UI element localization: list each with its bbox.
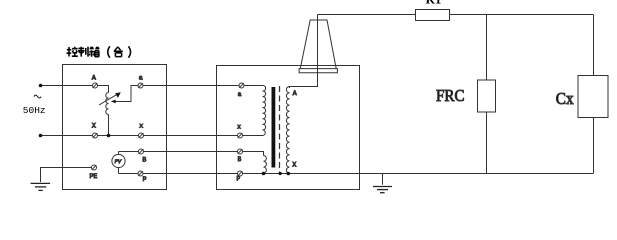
transformer core solid bar — [272, 87, 276, 168]
AC tilde symbol — [34, 95, 41, 98]
junction dot core dashed bar at bus — [279, 172, 282, 175]
wire P-line / bottom bus to Cx — [119, 173, 594, 175]
glyph 制 — [78, 47, 88, 57]
svg-text:P: P — [143, 176, 147, 183]
wire PE lead to ground — [41, 168, 95, 183]
terminal B (control box) — [139, 149, 144, 154]
primary winding a-x (inside tank) — [263, 85, 266, 135]
wire voltmeter top stub — [118, 152, 120, 155]
wire voltmeter bottom stub — [118, 168, 120, 174]
terminal X (control box) — [93, 133, 98, 138]
junction dot supply A — [39, 84, 43, 88]
glyph （ — [108, 46, 110, 57]
svg-text:R1: R1 — [426, 0, 442, 6]
svg-text:PV: PV — [115, 159, 122, 165]
ground symbol at PE — [31, 183, 50, 190]
wire bushing conductor down to HV winding top — [290, 15, 318, 89]
terminal x (tank) — [238, 133, 243, 138]
variac adjustment arrow — [99, 95, 117, 105]
transformer core dashed bar — [279, 86, 281, 173]
terminal PE (control box) — [92, 165, 97, 170]
variac coil — [106, 93, 109, 115]
svg-text:A: A — [293, 90, 297, 97]
wire variac wiper to a-line and to transformer primary top — [112, 86, 263, 102]
instrument winding B-P (inside tank) — [264, 156, 267, 173]
terminal a (tank) — [239, 83, 244, 88]
voltmeter PV circle — [112, 154, 125, 167]
terminal A (control box) — [93, 83, 98, 88]
wire FRC top lead — [486, 15, 488, 81]
svg-text:a: a — [238, 91, 242, 98]
transformer tank enclosure — [217, 66, 360, 190]
terminal P (control box) — [138, 171, 143, 176]
bushing insulator trapezoid — [300, 20, 336, 69]
svg-text:X: X — [292, 162, 296, 169]
capacitor Cx body — [578, 76, 608, 118]
wire B-line from voltmeter to instrument winding — [119, 152, 264, 156]
wire Cx bottom lead — [593, 118, 595, 174]
title 控制箱（台） hand-drawn glyphs — [67, 46, 131, 57]
control box enclosure — [63, 65, 167, 190]
ground symbol at tank bus — [373, 187, 392, 193]
svg-text:50Hz: 50Hz — [23, 105, 46, 116]
terminal B (tank) — [238, 149, 243, 154]
glyph 台 — [114, 47, 123, 57]
terminal a (control box) — [138, 83, 143, 88]
svg-text:A: A — [92, 74, 96, 81]
junction dot variac bottom — [107, 134, 111, 138]
svg-text:PE: PE — [90, 173, 98, 180]
wire FRC bottom lead — [486, 112, 488, 174]
wire variac bottom to X-line — [108, 115, 110, 136]
svg-text:P: P — [237, 175, 241, 182]
terminal x (control box) — [139, 133, 144, 138]
variac wiper arrowhead — [111, 100, 116, 104]
glyph 控 — [67, 47, 78, 57]
bushing base flange — [299, 69, 337, 73]
svg-text:Cx: Cx — [556, 89, 574, 108]
HV winding A-X (inside tank) — [286, 87, 289, 174]
terminal P (tank) — [238, 171, 243, 176]
wire X-line from supply through boxes to primary winding bottom — [41, 135, 263, 137]
wire Cx top lead — [593, 15, 595, 76]
wire supply A-line to variac top corner — [41, 86, 109, 93]
svg-text:FRC: FRC — [436, 86, 465, 105]
svg-text:B: B — [142, 156, 146, 163]
svg-text:a: a — [139, 75, 143, 82]
resistor R1 body — [416, 10, 450, 21]
wire top HV bus from bushing to Cx — [318, 14, 594, 16]
wire tank ground stub — [382, 174, 384, 185]
svg-text:X: X — [92, 122, 96, 129]
glyph 箱 — [89, 47, 99, 57]
junction dot supply X — [39, 134, 43, 138]
glyph ） — [128, 46, 130, 57]
divider FRC body — [478, 80, 496, 112]
junction dot HV winding X at bus — [287, 172, 291, 176]
svg-text:x: x — [139, 123, 143, 130]
svg-text:B: B — [238, 156, 242, 163]
svg-text:x: x — [237, 123, 241, 130]
junction dot instrument winding at bus — [262, 172, 266, 176]
